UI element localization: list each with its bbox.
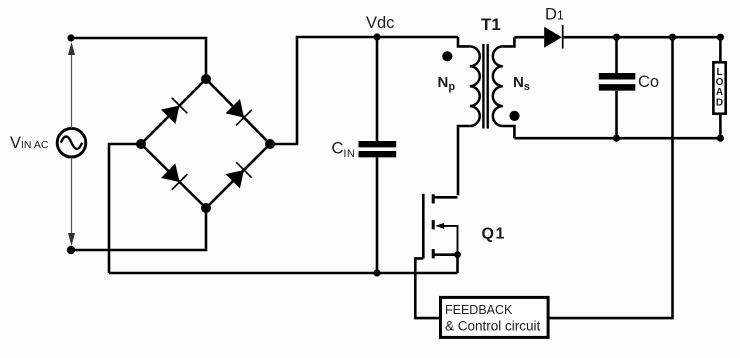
resistor LOAD box (713, 62, 725, 113)
node input bottom (67, 246, 75, 254)
node output top feedback tap (669, 34, 676, 41)
transformer core lines (482, 44, 484, 129)
node output top at load (717, 34, 724, 41)
phase dot Np (442, 51, 452, 61)
diode bridge D-b (top to right arm) (226, 99, 252, 125)
transistor Q1 channel stub drain (432, 194, 435, 203)
node bridge top (201, 74, 211, 84)
diode bridge D-d (bottom to right arm) (226, 162, 252, 188)
node Vdc (373, 33, 380, 40)
transistor Q1 channel stub body (432, 220, 435, 229)
transformer T1 secondary lead bottom (503, 126, 515, 138)
wire bridge arm L-T (141, 79, 206, 144)
wire top-left from AC top node to bridge top (71, 38, 206, 79)
feedback control box (441, 297, 549, 337)
svg-text:Vdc: Vdc (366, 14, 394, 32)
svg-text:Ns: Ns (513, 74, 530, 93)
wire secondary to D1 anode (514, 36, 544, 39)
wire Q1 source lead (433, 255, 457, 273)
wire bridge right node up to Vdc rail (270, 37, 458, 144)
wire D1 cathode to load (563, 36, 721, 39)
wire output bottom rail (514, 137, 720, 140)
diode bridge D-c (left to bottom arm) (161, 164, 187, 190)
svg-text:D1: D1 (545, 6, 564, 24)
node CIN bottom junction (373, 269, 380, 276)
wire bridge arm B-R (206, 144, 270, 208)
wire Q1 drain lead (433, 196, 457, 199)
wire bridge arm T-R (206, 79, 270, 144)
wire load top lead (719, 37, 722, 62)
wire Q1 body lead with arrow (438, 226, 458, 255)
node Q1 source/body junction (454, 251, 461, 258)
node input top (67, 34, 74, 41)
wire Vdc node down to CIN top (376, 37, 379, 141)
transformer T1 secondary winding Ns (493, 46, 503, 126)
svg-text:& Control circuit: & Control circuit (445, 319, 541, 334)
wire bridge arm L-B (141, 144, 206, 208)
wire load bottom lead (719, 114, 722, 139)
wire feedback sense from output top to feedback box (548, 37, 672, 318)
svg-text:Co: Co (638, 73, 659, 91)
svg-text:Q1: Q1 (482, 226, 506, 243)
measurement arrow upper (thin) (71, 54, 73, 128)
svg-text:Np: Np (438, 74, 456, 93)
transformer T1 secondary lead top (503, 37, 515, 46)
node output bottom at Co (613, 135, 620, 142)
measurement arrow lower (thin) (71, 158, 73, 235)
sine wave inside AC source (61, 136, 82, 149)
wire bottom rail to MOSFET source (109, 272, 458, 275)
diode D1 (544, 27, 562, 48)
wire CIN bottom to bottom rail (376, 158, 379, 274)
wire Co bottom lead (615, 91, 618, 138)
svg-text:D: D (716, 98, 723, 109)
capacitor Co (599, 76, 636, 87)
svg-text:A: A (716, 87, 723, 98)
wire AC bottom node to bridge bottom (71, 208, 206, 250)
capacitor CIN (359, 144, 397, 154)
node output bottom at load (717, 135, 724, 142)
transistor Q1 gate plate (422, 194, 425, 259)
node bridge right (265, 139, 275, 149)
wire Q1 gate down to feedback box (415, 258, 440, 318)
svg-text:VIN AC: VIN AC (10, 134, 49, 152)
node output top at Co (613, 34, 620, 41)
source VIN AC circle (57, 128, 86, 157)
wire Co top lead (615, 37, 618, 73)
transistor Q1 channel stub source (432, 249, 435, 258)
node bridge bottom (201, 203, 211, 213)
wire bridge left node to bottom rail (109, 144, 141, 273)
transformer T1 primary winding Np (470, 46, 480, 126)
node bridge left (136, 139, 146, 149)
svg-text:FEEDBACK: FEEDBACK (445, 303, 513, 317)
phase dot Ns (509, 111, 519, 121)
transformer T1 primary lead bottom to Q1 drain (458, 126, 470, 195)
transformer T1 primary lead top (458, 37, 470, 46)
diode bridge D-a (left to top arm) (161, 98, 187, 124)
svg-text:T1: T1 (481, 15, 501, 34)
svg-text:CIN: CIN (332, 139, 356, 160)
